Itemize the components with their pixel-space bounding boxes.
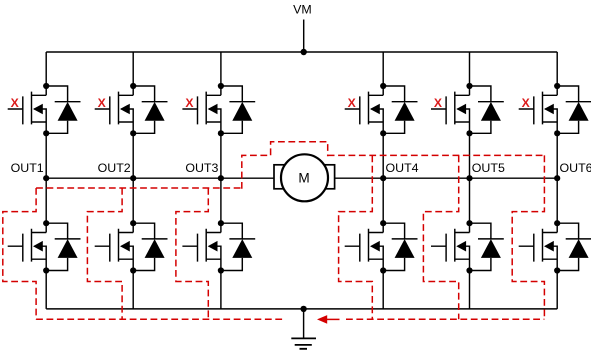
body diode of Q6H	[557, 86, 591, 133]
svg-text:OUT5: OUT5	[472, 161, 505, 175]
wire: VM rail to Q5H drain	[469, 52, 471, 86]
wire: Q5L source to GND rail	[469, 271, 471, 309]
svg-text:OUT2: OUT2	[98, 161, 131, 175]
junction: GND node dot	[300, 306, 306, 312]
body diode of Q5H	[470, 86, 504, 133]
red current path: GND return left (dashed)	[36, 318, 285, 320]
svg-text:OUT6: OUT6	[560, 161, 591, 175]
junction: OUT1 node dot	[43, 175, 49, 181]
wire: Q6L source to GND rail	[556, 271, 558, 309]
svg-text:X: X	[348, 96, 357, 110]
svg-text:OUT1: OUT1	[11, 161, 44, 175]
body diode of Q2L	[133, 223, 167, 270]
body diode of Q1H	[46, 86, 80, 133]
junction: OUT3 node dot	[218, 175, 224, 181]
wire: Q2H source to OUT2 node	[132, 133, 134, 178]
wire: VM rail to Q4H drain	[382, 52, 384, 86]
wire: output row OUT1-OUT3 to motor	[46, 177, 274, 179]
wire: OUT6 node to Q6L drain	[556, 178, 558, 223]
wire: Q2L source to GND rail	[132, 271, 134, 309]
junction: OUT6 node dot	[554, 175, 560, 181]
body diode of Q6L	[557, 223, 591, 270]
red current path: OUT1-OUT3 net (dashed)	[36, 187, 242, 189]
transistor Q5L low-side NMOS (OUT5)	[431, 220, 473, 274]
wire: VM top rail	[46, 51, 557, 53]
body diode of Q3H	[221, 86, 255, 133]
body diode of Q4L	[383, 223, 417, 270]
body diode of Q2H	[133, 86, 167, 133]
wire: VM rail to Q1H drain	[45, 52, 47, 86]
transistor Q2L low-side NMOS (OUT2)	[95, 220, 137, 274]
svg-text:X: X	[434, 96, 443, 110]
wire: GND stub	[303, 309, 305, 338]
svg-text:OUT4: OUT4	[386, 161, 419, 175]
red current path: GND return right (dashed)	[346, 318, 544, 320]
red current path: loop through Q4L (dashed)	[339, 155, 373, 319]
wire: VM rail to Q2H drain	[132, 52, 134, 86]
red current path: loop through Q2L (dashed)	[87, 188, 122, 319]
body diode of Q1L	[46, 223, 80, 270]
svg-text:X: X	[185, 96, 194, 110]
svg-text:VM: VM	[293, 3, 312, 17]
body diode of Q5L	[470, 223, 504, 270]
wire: VM rail to Q3H drain	[220, 52, 222, 86]
wire: Q1H source to OUT1 node	[45, 133, 47, 178]
wire: Q3H source to OUT3 node	[220, 133, 222, 178]
red arrow: current direction into GND node	[317, 315, 340, 324]
junction: VM node dot	[301, 49, 307, 55]
motor M (DC motor between OUT3 and OUT4)	[274, 154, 335, 201]
svg-text:X: X	[11, 96, 20, 110]
wire: Q1L source to GND rail	[45, 271, 47, 309]
wire: motor to output row OUT4-OUT6	[335, 177, 558, 179]
body diode of Q4H	[383, 86, 417, 133]
wire: Q3L source to GND rail	[220, 271, 222, 309]
transistor Q5H high-side NMOS (OUT5)	[431, 83, 473, 136]
svg-text:X: X	[98, 96, 107, 110]
wire: Q4H source to OUT4 node	[382, 133, 384, 178]
svg-text:X: X	[522, 96, 531, 110]
red current path: jog over motor (dashed)	[242, 142, 328, 189]
junction: OUT2 node dot	[130, 175, 136, 181]
transistor Q6L low-side NMOS (OUT6)	[519, 220, 561, 274]
red current path: loop through Q3L (dashed)	[176, 188, 208, 319]
wire: Q4L source to GND rail	[382, 271, 384, 309]
wire: OUT1 node to Q1L drain	[45, 178, 47, 223]
red current path: OUT4-OUT6 net (dashed)	[328, 154, 545, 156]
junction: OUT4 node dot	[380, 175, 386, 181]
transistor Q1H high-side NMOS (OUT1)	[8, 83, 50, 136]
wire: GND rail	[46, 308, 557, 310]
body diode of Q3L	[221, 223, 255, 270]
red current path: loop through Q1L (dashed)	[3, 188, 36, 319]
wire: OUT3 node to Q3L drain	[220, 178, 222, 223]
red current path: loop through Q5L (dashed)	[423, 155, 458, 319]
transistor Q4L low-side NMOS (OUT4)	[345, 220, 387, 274]
wire: OUT5 node to Q5L drain	[469, 178, 471, 223]
transistor Q3H high-side NMOS (OUT3)	[182, 83, 224, 136]
wire: OUT2 node to Q2L drain	[132, 178, 134, 223]
wire: VM rail to Q6H drain	[556, 52, 558, 86]
wire: OUT4 node to Q4L drain	[382, 178, 384, 223]
transistor Q3L low-side NMOS (OUT3)	[182, 220, 224, 274]
red current path: loop through Q6L (dashed)	[512, 155, 544, 319]
transistor Q2H high-side NMOS (OUT2)	[95, 83, 137, 136]
svg-text:OUT3: OUT3	[185, 161, 218, 175]
transistor Q1L low-side NMOS (OUT1)	[8, 220, 50, 274]
wire: Q6H source to OUT6 node	[556, 133, 558, 178]
transistor Q6H high-side NMOS (OUT6)	[519, 83, 561, 136]
wire: VM stub	[303, 20, 305, 53]
wire: Q5H source to OUT5 node	[469, 133, 471, 178]
junction: OUT5 node dot	[466, 175, 472, 181]
svg-text:M: M	[298, 170, 309, 185]
ground symbol	[291, 338, 316, 348]
transistor Q4H high-side NMOS (OUT4)	[345, 83, 387, 136]
